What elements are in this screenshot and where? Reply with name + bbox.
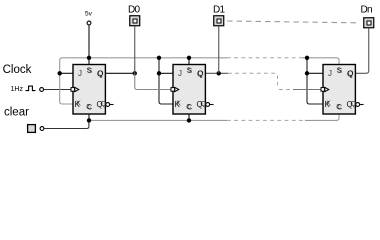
- probe D1: [214, 16, 224, 26]
- power 5v pin circle: [87, 21, 91, 25]
- svg-text:S: S: [187, 67, 192, 74]
- wire J2: [159, 72, 173, 74]
- wire Q0 to FF2 CLK: [135, 73, 171, 89]
- svg-text:clear: clear: [4, 107, 29, 119]
- probe D0: [130, 16, 140, 26]
- svg-text:K: K: [325, 100, 331, 109]
- wire D1 probe stem: [218, 27, 220, 74]
- wire D0 probe stem: [134, 27, 136, 74]
- wire clear pin to clear rail: [44, 120, 89, 128]
- node J1 tie: [58, 71, 62, 75]
- rail top dashed continuation: [227, 57, 302, 59]
- node FF2 rail to 5V: [157, 56, 161, 60]
- wire J3: [307, 72, 323, 74]
- svg-text:Q: Q: [347, 100, 353, 109]
- node J3 tie: [305, 71, 309, 75]
- svg-text:C: C: [86, 104, 91, 111]
- node 5v rail junction: [87, 56, 91, 60]
- wire S2 stub: [188, 58, 190, 65]
- wire 5v down to FF1 S: [88, 25, 90, 64]
- svg-text:J: J: [78, 69, 82, 78]
- node Q1 / D1 junction: [217, 71, 221, 75]
- svg-text:Q: Q: [97, 69, 103, 78]
- svg-text:K: K: [175, 100, 181, 109]
- node Q0 / D0 junction: [133, 71, 137, 75]
- wire Q1 dashed continuation: [228, 72, 276, 74]
- node clear C2 junction: [187, 118, 191, 122]
- svg-text:K: K: [75, 100, 81, 109]
- svg-text:Q: Q: [97, 100, 103, 109]
- wire solid into FF3 CLK: [293, 89, 321, 91]
- svg-text:J: J: [328, 69, 332, 78]
- svg-text:C: C: [336, 104, 341, 111]
- svg-text:1Hz: 1Hz: [11, 86, 24, 93]
- rail FF2 J/K tie: [159, 58, 173, 104]
- rail FF3 J/K tie: [307, 58, 323, 104]
- svg-text:S: S: [337, 67, 342, 74]
- clock source pin circle: [40, 88, 44, 92]
- rail top solid to FF3 S stub: [302, 58, 339, 65]
- node FF3 rail to 5V: [305, 56, 309, 60]
- svg-text:Dn: Dn: [361, 5, 373, 16]
- wire J1: [60, 72, 73, 74]
- rail +5V top (FF1 J/K tie + top rail): [60, 58, 227, 104]
- svg-text:C: C: [186, 104, 191, 111]
- pin Qbar stub U1: [110, 104, 114, 106]
- flip-flop U3: [321, 65, 364, 115]
- clear pin circle: [40, 127, 44, 131]
- wire dashed into FF3 CLK: [279, 89, 293, 91]
- svg-text:Q: Q: [197, 69, 203, 78]
- wire Q3 to Dn probe: [355, 29, 368, 74]
- wire dashed D row: [227, 21, 357, 23]
- pin Qbar bubble U2: [206, 103, 210, 107]
- pin CLK square U3: [321, 88, 325, 92]
- wire C2 stub: [188, 114, 190, 120]
- wire Q0 out: [105, 72, 134, 74]
- node S2 rail junction: [187, 56, 191, 60]
- pin CLK triangle U3: [325, 87, 329, 91]
- clock source pulse glyph: [26, 86, 36, 91]
- svg-text:Q: Q: [347, 69, 353, 78]
- svg-text:S: S: [87, 67, 92, 74]
- svg-text:Clock: Clock: [3, 64, 32, 76]
- pin Qbar bubble U3: [356, 103, 360, 107]
- pin Qbar stub U3: [360, 104, 364, 106]
- rail clear bottom: [89, 119, 227, 121]
- wire clock to FF1 CLK: [44, 89, 71, 91]
- wire Q1 out: [205, 72, 228, 74]
- clear input pin square: [28, 125, 36, 133]
- svg-text:J: J: [178, 69, 182, 78]
- pin CLK triangle U2: [175, 87, 179, 91]
- rail clear dashed continuation: [227, 119, 305, 121]
- pin Qbar stub U2: [210, 104, 214, 106]
- wire C1 stub: [88, 114, 90, 120]
- svg-text:D1: D1: [213, 5, 226, 16]
- node clear C1 junction: [87, 118, 91, 122]
- pin CLK triangle U1: [75, 87, 79, 91]
- svg-text:Q: Q: [197, 100, 203, 109]
- svg-text:5v: 5v: [85, 11, 93, 18]
- pin CLK square U1: [71, 88, 75, 92]
- wire dashed vertical drop: [277, 76, 279, 88]
- flip-flop U1: [71, 65, 114, 115]
- rail clear solid to FF3 C stub: [305, 114, 339, 120]
- probe Dn: [364, 18, 374, 28]
- pin CLK square U2: [171, 88, 175, 92]
- svg-text:D0: D0: [128, 5, 141, 16]
- pin Qbar bubble U1: [106, 103, 110, 107]
- flip-flop U2: [171, 65, 214, 115]
- node J2 tie: [157, 71, 161, 75]
